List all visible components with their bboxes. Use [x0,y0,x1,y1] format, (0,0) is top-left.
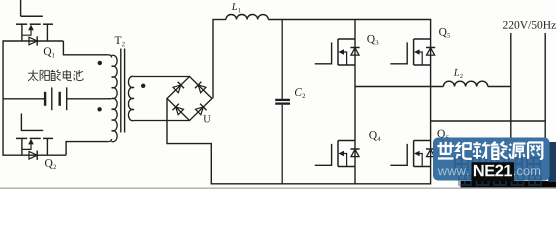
label Q1 [44,47,55,57]
wire secondary bottom lead to rectifier [134,120,190,122]
transistor Q5 (MOSFET) [390,39,435,65]
wire output terminal 1 [510,33,512,140]
wire battery right lead to center tap [67,98,111,100]
wire phase B from Q5/Q6 midpoint [431,120,546,122]
bottom page edge [0,187,556,189]
transistor Q4 (MOSFET) [315,141,360,167]
watermark text 世纪新能源网 [437,142,542,159]
wire phase A to output terminal [488,86,511,88]
label C2 [295,88,305,98]
wire bottom rail [211,183,432,185]
wire Q2 drain to transformer primary bottom [66,142,108,156]
transistor Q1 (MOSFET) [16,16,53,41]
wire H-bridge right leg [430,20,432,184]
transistor Q2 (MOSFET) [16,114,53,156]
transformer T2 primary winding [108,55,117,142]
label Q2 [45,159,56,169]
inductor L1 [226,14,268,19]
transistor Q3 (MOSFET) [315,39,360,65]
wire Q1 gate lead from top edge [20,0,22,16]
transformer T2 core [121,49,125,133]
battery 太阳能电池 (solar cell stack) [45,87,67,110]
label Q5 [439,28,450,38]
wire bridge negative to bottom rail [167,99,211,184]
wire left frame vertical [2,40,4,156]
diode U lower-left [172,104,183,115]
capacitor C2 [275,20,290,184]
diode U upper-right [195,82,206,93]
label U [203,115,210,122]
transformer T2 secondary winding [128,76,134,120]
wire Q2 source line [3,154,66,156]
wire top rail left segment [212,19,226,21]
wire center tap junction [108,98,111,100]
label 220V/50Hz [503,21,556,29]
label Q6 [437,130,448,140]
watermark 世纪新能源网 www.NE21.com [433,138,556,190]
wire output terminal 2 [544,33,546,140]
diode U lower-right [196,104,207,115]
label Q3 [367,35,378,45]
label Q4 [369,131,380,141]
label L2 [454,69,463,78]
diode U upper-left [173,82,184,93]
wire phase A from Q3/Q4 midpoint [355,86,443,88]
polarity dot secondary [141,84,145,88]
wire top rail right segment [268,19,431,21]
transistor Q6 (MOSFET) [390,141,435,167]
label 太阳能电池 (solar battery text) [28,70,83,81]
polarity dot primary top [98,61,102,65]
wire battery left lead [3,98,45,100]
label L1 [232,3,241,12]
diode of Q2 (series diode D2) [29,151,37,160]
watermark text www.NE21.com with dark plate [438,162,540,181]
bridge rectifier U diamond [167,77,212,121]
wire Q1 source line [3,40,63,42]
wire H-bridge left leg [354,20,356,184]
label T2 [115,36,125,46]
inductor L2 [443,81,487,86]
diode of Q1 (series diode D1) [29,36,37,45]
polarity dot primary bottom [97,107,101,111]
wire Q1 drain to transformer primary top [63,41,108,55]
wire secondary top lead to rectifier [134,76,190,78]
wire bridge positive to top rail [212,20,214,99]
